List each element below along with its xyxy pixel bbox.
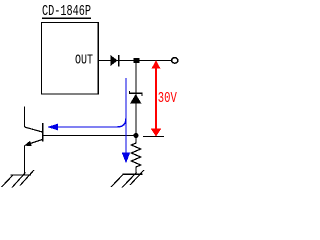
diode D1 bbox=[111, 55, 119, 67]
collector lead bbox=[24, 107, 26, 128]
emitter with arrow bbox=[25, 140, 42, 146]
wire base to junction bbox=[43, 135, 138, 137]
junction (square dot) bbox=[134, 58, 140, 63]
junction dot (bottom) bbox=[133, 133, 138, 138]
svg-text:OUT: OUT bbox=[75, 53, 93, 69]
terminal (open circle) bbox=[172, 58, 178, 63]
resistor R1 bbox=[131, 136, 140, 174]
branch curve to base bbox=[58, 118, 126, 127]
wire OUT to terminal bbox=[98, 60, 172, 62]
dimension arrow 30V (red) bbox=[151, 60, 162, 136]
wire vertical from junction down bbox=[135, 61, 137, 137]
transistor Q1 bbox=[24, 107, 43, 176]
vertical current arrow bbox=[125, 78, 127, 154]
dimension reference line bbox=[143, 136, 164, 138]
blue arrowhead down bbox=[122, 153, 130, 164]
ground (right) bbox=[111, 170, 144, 188]
IC U1 box CD-1846P bbox=[42, 23, 99, 95]
current path (blue) bbox=[58, 78, 126, 154]
ground (left) bbox=[2, 170, 35, 188]
base bar bbox=[42, 123, 44, 142]
emitter lead bbox=[24, 146, 26, 176]
zener diode ZD1 bbox=[130, 91, 143, 104]
blue arrowhead left bbox=[47, 124, 58, 131]
svg-text:30V: 30V bbox=[158, 90, 177, 107]
